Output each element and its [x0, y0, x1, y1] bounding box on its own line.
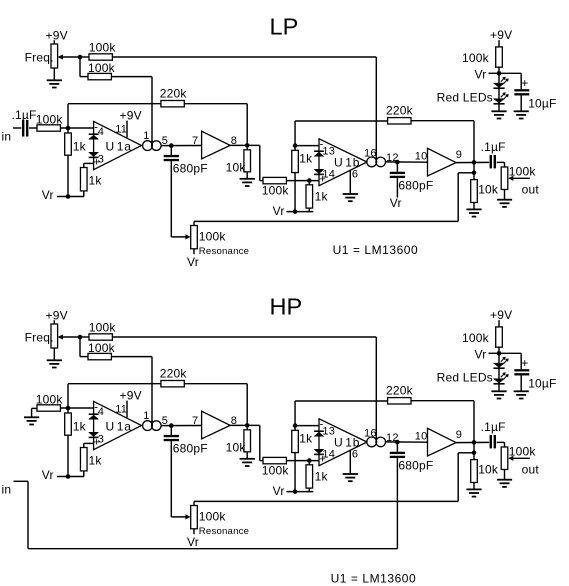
resistor 1k U1a-A (HP): [65, 408, 87, 477]
svg-text:11: 11: [115, 404, 127, 416]
svg-text:100k: 100k: [199, 229, 227, 243]
wire U1b inv node up (HP): [295, 401, 388, 430]
resistor 10k stage2 (LP): [471, 180, 499, 210]
wire R-CV-A to U1b bias (HP): [112, 336, 376, 338]
svg-text:Vr: Vr: [475, 67, 487, 81]
svg-text:Freq.: Freq.: [25, 50, 54, 64]
svg-text:.1µF: .1µF: [12, 108, 37, 122]
wire junction down (LP): [80, 57, 88, 77]
resistor 1k U1a-B (LP): [80, 163, 102, 196]
node Vr junction U1b (LP): [293, 209, 298, 214]
wire pin5 to buffer1 (LP): [161, 145, 202, 147]
op-amp buffer A (LP): [202, 131, 231, 159]
label in (LP): [2, 130, 12, 144]
resistor 100k input (LP): [36, 112, 64, 131]
potentiometer 100k output (HP): [501, 444, 536, 469]
op-amp buffer B (HP): [428, 428, 457, 456]
svg-text:in: in: [2, 130, 12, 144]
ground (10k stage2, LP): [466, 209, 481, 216]
node resonance tap (LP): [472, 171, 477, 176]
svg-text:11: 11: [115, 124, 127, 136]
svg-text:9: 9: [456, 149, 462, 161]
ground (U1b pin6, LP): [343, 194, 358, 201]
resistor 100k CV-A (LP): [89, 40, 117, 60]
svg-text:10µF: 10µF: [528, 376, 556, 390]
svg-text:100k: 100k: [262, 183, 290, 197]
svg-text:100k: 100k: [262, 463, 290, 477]
svg-text:100k: 100k: [88, 61, 116, 75]
wire in to 680pF stage2 (HP): [14, 458, 398, 549]
wire pin12 to buffer2 (HP): [386, 441, 428, 443]
node resonance tap (HP): [472, 451, 477, 456]
svg-text:1k: 1k: [73, 139, 87, 153]
pin label +3 (LP): [93, 153, 104, 168]
node buffer1 out (LP): [245, 143, 250, 148]
node buffer1 out (HP): [245, 423, 250, 428]
diode U1a upper (LP): [89, 134, 99, 139]
resistor 100k interstage (HP): [262, 457, 290, 477]
diode U1b lower (LP): [314, 169, 324, 174]
diode U1b lower (HP): [314, 449, 324, 454]
capacitor 680pF stage1 (LP): [164, 146, 208, 176]
resistor 100k LED (HP): [462, 327, 502, 347]
node Vr reference (HP): [497, 351, 502, 356]
svg-text:Vr: Vr: [390, 196, 402, 210]
svg-text:out: out: [522, 182, 540, 196]
svg-text:16: 16: [364, 427, 377, 439]
pin label 9 (HP): [456, 429, 462, 441]
node Vr junction U1a (LP): [66, 194, 71, 199]
wire R-CV-A to U1b bias (LP): [112, 56, 376, 58]
svg-text:680pF: 680pF: [173, 441, 208, 455]
wire Freq wiper (HP): [58, 334, 80, 339]
svg-text:+: +: [521, 356, 528, 370]
node pin5 junction (HP): [169, 423, 174, 428]
label Vr / wire (U1a bias net, LP): [42, 188, 84, 202]
resistor 220k stage1 (HP): [160, 366, 188, 387]
svg-text:.1µF: .1µF: [481, 140, 506, 154]
op-amp U1b OTA (LP): [319, 139, 367, 186]
svg-text:9: 9: [456, 429, 462, 441]
wire 220k2 to buffer2 output (HP): [411, 401, 474, 443]
wire buffer1 to 100k (HP): [260, 425, 263, 460]
wire junction down (HP): [80, 337, 88, 357]
wire Freq pot to ground (HP): [53, 348, 55, 360]
label Red LEDs (LP): [437, 90, 493, 104]
svg-text:100k: 100k: [462, 331, 490, 345]
capacitor 680pF stage1 (HP): [164, 426, 208, 456]
pin 6 lead U1b / ground (LP): [350, 168, 358, 194]
svg-text:+9V: +9V: [120, 388, 142, 402]
svg-text:3: 3: [98, 153, 104, 165]
ground (out pot, LP): [497, 200, 512, 207]
node Vr reference (LP): [497, 71, 502, 76]
label in (HP): [2, 483, 12, 497]
wire U1a pin1 bias drop (LP): [151, 77, 153, 146]
+9V label (LED branch, LP): [490, 28, 512, 42]
pin label 12 (LP): [386, 152, 399, 164]
resistor 1k U1a-B (HP): [80, 443, 102, 476]
node Freq CV junction (HP): [78, 335, 83, 340]
wire +9V to Freq pot (LP): [53, 40, 55, 44]
pin label 10 (HP): [415, 430, 428, 442]
pin 11 lead U1a (HP): [115, 401, 127, 418]
wire resonance pot to Vr (HP): [187, 529, 199, 549]
pin label +3 (HP): [93, 433, 104, 448]
LED D1 (HP): [493, 363, 504, 368]
ground (LEDs, LP): [491, 111, 506, 118]
resistor 1k U1b-B (HP): [306, 461, 328, 492]
diode U1b upper (LP): [314, 151, 324, 156]
resistor 100k LED (LP): [462, 47, 502, 67]
op-amp U1a OTA (LP): [94, 121, 142, 169]
node pin12 junction (LP): [395, 160, 400, 165]
wire out wiper (HP): [508, 456, 539, 477]
wire R-CV-B to U1a bias (HP): [111, 356, 152, 358]
ground (input 100k, HP): [24, 408, 39, 424]
svg-text:4: 4: [98, 406, 104, 418]
svg-text:out: out: [522, 462, 540, 476]
pin label 5 (HP): [162, 415, 168, 427]
resistor 100k interstage (LP): [262, 177, 290, 197]
label Vr / wire (U1b bias net, LP): [273, 204, 314, 218]
wire node up to 220k (HP): [68, 384, 161, 408]
node pin5 junction (LP): [169, 143, 174, 148]
ground (U1b pin6, HP): [343, 474, 358, 481]
label U1 = LM13600 (LP): [333, 243, 419, 257]
pin 6 lead U1b / ground (HP): [350, 448, 358, 474]
pin label 9 (LP): [456, 149, 462, 161]
svg-text:680pF: 680pF: [398, 458, 433, 472]
svg-text:7: 7: [192, 415, 198, 427]
svg-text:Vr: Vr: [273, 484, 285, 498]
LED D1 arrows (HP): [501, 357, 509, 364]
pin label 12 (HP): [386, 432, 399, 444]
resistor 10k stage1 (HP): [226, 425, 251, 458]
diode U1a lower (HP): [89, 432, 99, 437]
svg-text:6: 6: [352, 448, 358, 460]
node pin14 junction (LP): [307, 178, 312, 183]
svg-text:U1 = LM13600: U1 = LM13600: [331, 571, 417, 585]
wire out pot to ground (LP): [504, 190, 506, 200]
wire pin12 to buffer2 (LP): [386, 161, 428, 163]
svg-text:Freq.: Freq.: [25, 330, 54, 344]
wire 220k to buffer1 output (LP): [184, 104, 247, 146]
wire cap to out pot (LP): [497, 162, 505, 167]
wire U1a pin1 bias drop (HP): [151, 357, 153, 426]
ground (Freq pot, HP): [47, 360, 62, 367]
svg-text:13: 13: [322, 425, 335, 437]
node Vr junction U1b (HP): [293, 489, 298, 494]
svg-text:Vr: Vr: [187, 535, 199, 549]
svg-text:100k: 100k: [36, 112, 64, 126]
svg-text:100k: 100k: [36, 392, 64, 406]
svg-text:1: 1: [143, 130, 149, 142]
svg-text:LP: LP: [270, 14, 299, 40]
wire 100k to U1b pin14 (HP): [286, 460, 319, 462]
ground (10uF, HP): [514, 391, 529, 398]
pin 11 lead U1a (LP): [115, 121, 127, 138]
diode U1a lower (LP): [89, 152, 99, 157]
label U1 = LM13600 (HP): [331, 571, 417, 585]
svg-text:100k: 100k: [462, 51, 490, 65]
label Vr / wire (U1a bias net, HP): [42, 468, 84, 482]
capacitor 10uF (LP): [514, 76, 556, 110]
label Vr (LED branch, LP): [475, 67, 500, 81]
op-amp U1a OTA (HP): [94, 401, 142, 449]
node U1b pin13 junction (LP): [293, 143, 298, 148]
svg-text:220k: 220k: [160, 366, 188, 380]
diode U1a upper (HP): [89, 414, 99, 419]
+9V label U1a pin11 (HP): [120, 388, 142, 402]
pin label 5 (LP): [162, 135, 168, 147]
LED D2 (LP): [493, 99, 504, 104]
pin label +14 (LP): [319, 168, 335, 185]
svg-text:Vr: Vr: [273, 204, 285, 218]
U1a output circles pin1 (HP): [143, 410, 162, 431]
svg-text:220k: 220k: [386, 383, 414, 397]
svg-text:Resonance: Resonance: [199, 526, 249, 537]
svg-text:+9V: +9V: [46, 309, 68, 323]
svg-text:+9V: +9V: [490, 28, 512, 42]
wire U1b inv node up (LP): [295, 121, 388, 150]
svg-text:680pF: 680pF: [398, 178, 433, 192]
resistor 100k input (HP): [36, 392, 64, 411]
svg-text:HP: HP: [270, 294, 303, 320]
label Vr (680pF stage2, LP): [390, 196, 402, 210]
capacitor .1uF output (HP): [481, 420, 506, 448]
svg-text:16: 16: [364, 147, 377, 159]
resistor 1k U1b-A (LP): [292, 150, 313, 211]
svg-text:Vr: Vr: [42, 468, 54, 482]
ground (10k stage1, LP): [240, 179, 255, 186]
svg-text:220k: 220k: [160, 86, 188, 100]
svg-text:4: 4: [98, 126, 104, 138]
svg-text:.1µF: .1µF: [481, 420, 506, 434]
title LP: [270, 14, 299, 40]
wire 100k to U1b pin14 (LP): [286, 180, 319, 182]
wire buffer2 out (HP): [456, 441, 489, 443]
op-amp buffer B (LP): [428, 148, 457, 176]
LED D2 arrows (LP): [501, 92, 509, 99]
svg-text:100k: 100k: [88, 341, 116, 355]
svg-text:Vr: Vr: [187, 255, 199, 269]
svg-text:U 1a: U 1a: [106, 419, 132, 433]
svg-text:U 1b: U 1b: [334, 435, 360, 449]
pin label -13 (HP): [320, 419, 335, 438]
svg-text:7: 7: [192, 135, 198, 147]
wire node up to 220k (LP): [68, 104, 161, 128]
resistor 100k CV-A (HP): [89, 320, 117, 340]
ground (out pot, HP): [497, 480, 512, 487]
pin label 7 (HP): [192, 415, 198, 427]
wire out pot to ground (HP): [504, 470, 506, 480]
svg-text:in: in: [2, 483, 12, 497]
svg-text:1k: 1k: [89, 453, 103, 467]
resistor 220k stage1 (LP): [160, 86, 188, 107]
wire +9V to 100k (HP): [498, 320, 500, 327]
potentiometer 100k output (LP): [501, 164, 536, 189]
svg-text:1k: 1k: [315, 189, 329, 203]
capacitor .1uF output (LP): [481, 140, 506, 168]
+9V supply label (Freq pot, HP): [46, 309, 68, 323]
svg-text:1k: 1k: [299, 431, 313, 445]
wire 680pF to resonance wiper (HP): [171, 441, 190, 519]
wire Vr node to 10uF (LP): [499, 73, 521, 89]
node pin14 junction (HP): [307, 458, 312, 463]
potentiometer Freq. 100k (HP): [25, 324, 58, 348]
svg-text:14: 14: [322, 448, 335, 460]
resistor 220k stage2 (LP): [386, 103, 414, 124]
wire pin5 to buffer1 (HP): [161, 425, 202, 427]
svg-text:10k: 10k: [226, 160, 247, 174]
node U1b pin13 junction (HP): [293, 423, 298, 428]
+9V supply label (Freq pot, LP): [46, 29, 68, 43]
diode U1b upper (HP): [314, 431, 324, 436]
wire U1b pin16 bias drop (LP): [375, 57, 377, 162]
wire R-in to U1a pin4 (HP): [60, 407, 93, 409]
wire buffer1 out (HP): [230, 424, 260, 426]
svg-text:1k: 1k: [73, 419, 87, 433]
resistor 10k stage1 (LP): [226, 145, 251, 178]
wire pin13 (LP): [295, 145, 319, 147]
resistor 1k U1b-B (LP): [306, 181, 328, 212]
wire output node down (LP): [473, 162, 475, 179]
wire 680pF to resonance wiper (LP): [171, 161, 190, 239]
node U1a inverting input (HP): [66, 406, 71, 411]
LED D1 (LP): [493, 83, 504, 88]
svg-text:Red LEDs: Red LEDs: [437, 370, 493, 384]
wire Freq pot to ground (LP): [53, 68, 55, 80]
svg-text:Red LEDs: Red LEDs: [437, 90, 493, 104]
svg-text:10: 10: [415, 150, 428, 162]
ground (10uF, LP): [514, 111, 529, 118]
+9V label (LED branch, HP): [490, 308, 512, 322]
wire R-in to U1a pin4 (LP): [60, 127, 93, 129]
pin label -4 (LP): [94, 122, 104, 138]
wire 220k to buffer1 output (HP): [184, 384, 247, 426]
svg-text:U1 = LM13600: U1 = LM13600: [333, 243, 419, 257]
node pin12 junction (HP): [395, 440, 400, 445]
svg-text:680pF: 680pF: [173, 161, 208, 175]
resistor 1k U1a-A (LP): [65, 128, 87, 197]
resistor 220k stage2 (HP): [386, 383, 414, 404]
svg-text:14: 14: [322, 168, 335, 180]
wire 220k2 to buffer2 output (LP): [411, 121, 474, 163]
+9V label U1a pin11 (LP): [120, 108, 142, 122]
node buffer2 out (LP): [472, 160, 477, 165]
wire resonance pot to Vr (LP): [187, 249, 199, 269]
svg-text:6: 6: [352, 168, 358, 180]
wire +9V to 100k (LP): [498, 40, 500, 47]
ground (10k stage1, HP): [240, 459, 255, 466]
capacitor 10uF (HP): [514, 356, 556, 390]
wire C-in to R-in (LP): [29, 127, 37, 129]
wire 100k to LEDs (HP): [498, 347, 500, 391]
resistor 10k stage2 (HP): [471, 460, 499, 490]
node U1a inverting input (LP): [66, 126, 71, 131]
wire output node down (HP): [473, 442, 475, 459]
wire resonance feedback (LP): [194, 173, 474, 226]
wire junction to R-CV-A (LP): [80, 56, 89, 58]
wire buffer1 out (LP): [230, 144, 260, 146]
LED D2 (HP): [493, 379, 504, 384]
svg-text:Vr: Vr: [475, 347, 487, 361]
svg-text:1k: 1k: [299, 151, 313, 165]
label Vr (LED branch, HP): [475, 347, 500, 361]
pin label -4 (HP): [94, 402, 104, 418]
svg-text:10µF: 10µF: [528, 96, 556, 110]
svg-text:3: 3: [98, 433, 104, 445]
U1a output circles pin1 (LP): [143, 130, 162, 151]
wire out wiper (LP): [508, 176, 539, 197]
ground (Freq pot, LP): [47, 80, 62, 87]
node Vr junction U1a (HP): [66, 474, 71, 479]
svg-text:10: 10: [415, 430, 428, 442]
potentiometer 100k Resonance (HP): [191, 506, 249, 537]
wire cap to out pot (HP): [497, 442, 505, 447]
node Freq CV junction (LP): [78, 55, 83, 60]
wire 10uF to ground (LP): [520, 96, 522, 112]
svg-text:U 1b: U 1b: [334, 155, 360, 169]
wire pin13 (HP): [295, 425, 319, 427]
capacitor 680pF stage2 (HP): [390, 442, 434, 472]
LED D1 arrows (LP): [501, 77, 509, 84]
wire U1b pin16 bias drop (HP): [375, 337, 377, 442]
svg-text:1k: 1k: [315, 469, 329, 483]
pin label 7 (LP): [192, 135, 198, 147]
node buffer2 out (HP): [472, 440, 477, 445]
wire R-CV-B to U1a bias (LP): [111, 76, 152, 78]
resistor 1k U1b-A (HP): [292, 430, 313, 491]
wire junction to R-CV-A (HP): [80, 336, 89, 338]
wire 10uF to ground (HP): [520, 376, 522, 392]
svg-text:13: 13: [322, 145, 335, 157]
svg-text:1: 1: [143, 410, 149, 422]
capacitor .1uF input (LP): [12, 108, 37, 137]
resistor 100k CV-B (HP): [88, 341, 116, 360]
capacitor 680pF stage2 (LP): [390, 162, 434, 197]
svg-text:10k: 10k: [478, 182, 499, 196]
ground (10k stage2, HP): [466, 489, 481, 496]
wire +9V to Freq pot (HP): [53, 320, 55, 324]
potentiometer Freq. 100k (LP): [25, 44, 58, 68]
wire resonance feedback (HP): [194, 453, 474, 506]
wire buffer1 to 100k (LP): [260, 145, 263, 180]
U1b output circles pin16 (HP): [364, 427, 386, 446]
label Red LEDs (HP): [437, 370, 493, 384]
svg-text:100k: 100k: [89, 320, 117, 334]
svg-text:+9V: +9V: [490, 308, 512, 322]
ground (LEDs, HP): [491, 391, 506, 398]
svg-text:220k: 220k: [386, 103, 414, 117]
svg-text:Resonance: Resonance: [199, 246, 249, 257]
pin label -13 (LP): [320, 139, 335, 158]
svg-text:+9V: +9V: [46, 29, 68, 43]
wire Freq wiper (LP): [58, 54, 80, 59]
svg-text:Vr: Vr: [42, 188, 54, 202]
svg-text:1k: 1k: [89, 173, 103, 187]
svg-text:+: +: [521, 76, 528, 90]
wire Vr node to 10uF (HP): [499, 353, 521, 369]
op-amp buffer A (HP): [202, 411, 231, 439]
pin label 8 (LP): [231, 135, 237, 147]
svg-text:U 1a: U 1a: [106, 139, 132, 153]
svg-text:100k: 100k: [199, 509, 227, 523]
op-amp U1b OTA (HP): [319, 419, 367, 466]
pin label 10 (LP): [415, 150, 428, 162]
label Vr / wire (U1b bias net, HP): [273, 484, 314, 498]
